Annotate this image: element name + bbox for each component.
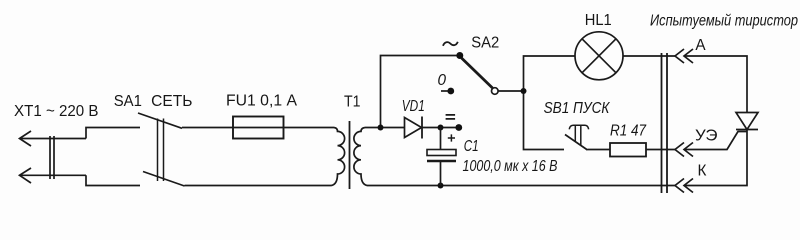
wire thyristor cathode down [684, 130, 747, 186]
wire SB1 to R1 [588, 149, 611, 151]
wire T1 secondary top to VD1 [365, 127, 405, 129]
svg-text:А: А [695, 37, 706, 54]
capacitor C1 positive plate [427, 150, 456, 156]
capacitor C1 top lead [440, 128, 442, 150]
fuse FU1 body [233, 117, 284, 139]
svg-text:FU1 0,1 А: FU1 0,1 А [226, 93, 298, 110]
wire junction to HL1 [524, 56, 576, 91]
capacitor C1 negative plate [427, 160, 456, 162]
connector XT1 pin top arrow [20, 131, 32, 146]
transformer T1 secondary winding [354, 128, 367, 186]
capacitor C1 plus sign [448, 134, 455, 141]
wire junction to SB1 [524, 91, 565, 150]
contact dot SA2 dc [455, 124, 462, 131]
svg-text:VD1: VD1 [402, 98, 425, 115]
diode VD1 cathode bar [421, 117, 423, 139]
connector XT1 pin bottom arrow [20, 168, 32, 183]
switch SA2 common circle [492, 88, 499, 95]
thyristor cathode bar [736, 129, 758, 131]
wire VD1 to SA2 dc contact [422, 127, 459, 129]
switch SA2 dc mark [446, 115, 456, 119]
lamp HL1 cross [582, 39, 616, 73]
svg-text:СЕТЬ: СЕТЬ [151, 93, 192, 110]
wire SA2 common to junction [499, 90, 524, 92]
button SB1 lever [565, 135, 588, 151]
switch SA2 zero stub [441, 90, 451, 92]
svg-text:SA1: SA1 [114, 93, 142, 110]
wire R1 to connector UE [646, 149, 676, 151]
svg-text:Испытуемый тиристор: Испытуемый тиристор [650, 12, 798, 29]
transformer T1 core [349, 121, 351, 189]
wire XT1 bottom to SA1 [86, 175, 140, 185]
contact dot SA2 zero [447, 88, 454, 95]
wire SA1 bottom to T1 [185, 185, 332, 187]
svg-text:XT1 ~ 220 В: XT1 ~ 220 В [14, 103, 99, 120]
junction dot T1 top [378, 125, 384, 131]
junction dot C1 bottom [438, 183, 444, 189]
junction dot SA2 common [521, 88, 527, 94]
connector pin K chevrons [675, 179, 693, 193]
button SB1 plunger [569, 125, 588, 145]
wire XT1 top to SA1 [86, 128, 140, 139]
switch SA1 bottom lever [143, 172, 185, 187]
thyristor triangle [736, 113, 758, 130]
svg-text:HL1: HL1 [585, 12, 612, 29]
switch SA2 ac mark [443, 42, 458, 46]
transformer T1 primary winding [332, 128, 345, 186]
connector socket double lines [662, 53, 668, 193]
capacitor C1 bottom lead [440, 162, 442, 186]
connector XT1 pin bottom shaft [20, 174, 87, 176]
svg-text:0: 0 [438, 72, 447, 89]
svg-text:SB1 ПУСК: SB1 ПУСК [544, 100, 611, 117]
diode VD1 triangle [405, 118, 422, 138]
switch SA1 top lever [138, 113, 182, 128]
contact dot SA2 ac [456, 52, 463, 59]
svg-text:УЭ: УЭ [695, 128, 718, 145]
junction dot C1 top [438, 125, 444, 131]
wire A to thyristor anode [684, 56, 747, 113]
wire T1 secondary bottom rail [367, 185, 676, 187]
svg-text:R1 47: R1 47 [610, 122, 646, 139]
switch SA2 lever [462, 58, 493, 88]
svg-text:1000,0 мк х 16 В: 1000,0 мк х 16 В [463, 158, 558, 175]
wire gate to UE [684, 132, 747, 150]
connector XT1 double lines [50, 136, 54, 179]
wire riser to SA2 ac contact [381, 56, 460, 128]
wire SA1 to FU1 [182, 127, 334, 129]
connector XT1 pin top shaft [20, 138, 87, 140]
svg-text:SA2: SA2 [471, 35, 499, 52]
resistor R1 body [610, 143, 646, 157]
switch SA1 linkage double line [158, 119, 164, 182]
connector pin A chevrons [675, 49, 693, 63]
wire HL1 to connector A [623, 55, 676, 57]
svg-text:К: К [698, 163, 707, 180]
connector pin UE chevrons [675, 143, 693, 157]
svg-text:Т1: Т1 [344, 93, 361, 110]
svg-text:C1: C1 [464, 138, 479, 155]
lamp HL1 circle [575, 32, 623, 80]
